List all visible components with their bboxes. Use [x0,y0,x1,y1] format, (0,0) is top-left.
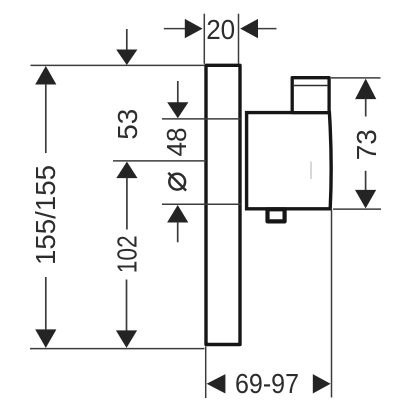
dim 155/155: bottom extension line [30,348,204,350]
svg-text:48: 48 [161,128,192,157]
dim 48: top line [162,118,241,120]
dim 155/155: top arrow [35,66,56,85]
dim 48: top arrow (outside, above) [177,81,179,103]
dim 20: left arrow [164,28,186,30]
wall plate (side view, 20 mm thick) [206,65,240,344]
svg-text:73: 73 [351,129,382,160]
valve body [247,113,332,209]
dim 73: bottom extension line [333,208,381,210]
stop ring inner edge line [294,85,328,87]
dim 48: bottom arrow (outside, below) [167,205,188,223]
dim 48: bottom line [162,203,241,205]
faint detail line on body right [310,162,312,180]
dim 53: top arrow (outside, above plate-top line) [126,29,128,51]
svg-text:69-97: 69-97 [235,368,299,399]
dim 73: top extension line [331,77,381,79]
diameter symbol of dim 48 [169,174,185,190]
svg-text:20: 20 [206,14,235,45]
dim 69-97: left extension line [205,347,207,399]
tab under body [268,209,285,221]
dim 102: top arrow [116,162,137,179]
dim 73: top arrow [355,79,376,100]
dim 69-97: right extension line [331,210,333,398]
dim 20: right extension line [238,14,240,64]
svg-text:102: 102 [112,235,143,273]
dim 73: bottom arrow [365,171,367,191]
svg-text:155/155: 155/155 [30,165,61,265]
dim 20: left extension line [203,14,205,64]
dim 69-97: right arrow [313,374,331,393]
svg-text:53: 53 [112,109,143,140]
dim 20: right arrow [257,28,277,30]
dim 155/155: top extension line [31,64,205,66]
dim 53/102 boundary line [113,160,206,162]
dim 69-97: left arrow [207,374,226,393]
stop ring on top of body [292,78,329,113]
dim 155/155: bottom arrow [35,329,56,348]
dim 102: bottom arrow [126,280,128,332]
